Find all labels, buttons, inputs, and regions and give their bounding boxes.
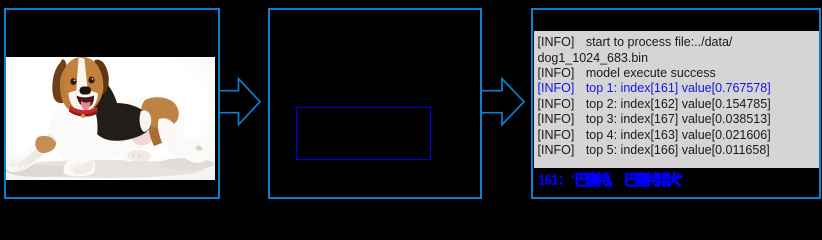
white muzzle lower half [69, 90, 99, 111]
left ear [52, 59, 67, 103]
inner blue rectangle [296, 107, 431, 160]
terminal text [538, 35, 822, 158]
collar [69, 106, 98, 117]
terminal gray area [534, 31, 819, 168]
front left paw toes [8, 159, 26, 171]
model box (box 2) [268, 8, 482, 199]
tan shoulder patch on foreleg [35, 136, 56, 153]
open mouth [77, 96, 95, 108]
tan rump / thigh [141, 97, 178, 128]
white blaze [76, 58, 88, 110]
middle hind paw toes [127, 150, 151, 162]
soft shadow under dog [4, 160, 204, 178]
nose [80, 87, 92, 95]
input image box (box 1) [4, 8, 220, 199]
output box (box 3) [531, 8, 821, 199]
dog photo [4, 57, 215, 180]
tongue [81, 101, 91, 111]
white body, chest, legs silhouette [6, 95, 207, 177]
white hip patch [140, 110, 152, 132]
head [60, 57, 103, 112]
rear white leg [158, 118, 182, 155]
right ear [93, 60, 109, 94]
head side shading [61, 70, 67, 100]
pink inner thigh [132, 131, 152, 146]
eyes [70, 78, 76, 85]
front leg shading lines [18, 133, 58, 167]
black saddle [86, 74, 151, 141]
rear paw [177, 139, 206, 154]
brown streak (far thigh) [148, 117, 162, 146]
white chest [55, 98, 97, 157]
front right paw toes [70, 162, 92, 174]
